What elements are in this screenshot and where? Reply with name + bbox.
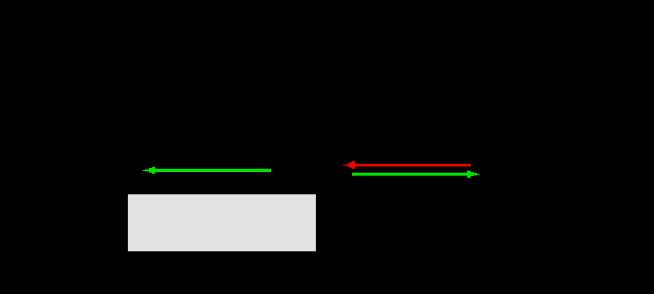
friction force arrow (left, green, pointing left) [143, 167, 272, 174]
wire [352, 173, 468, 176]
reaction force arrow (right, green, pointing right) [352, 171, 480, 178]
applied force arrow (right, red, pointing left) [343, 161, 471, 168]
wire [155, 169, 272, 172]
wire [355, 164, 471, 166]
block (gray box) [128, 194, 316, 251]
